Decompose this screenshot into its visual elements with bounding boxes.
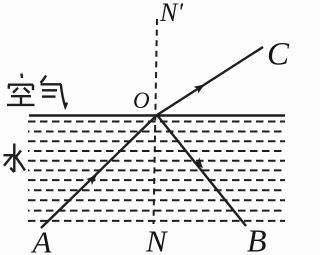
water dashed line row 1 (28, 121, 285, 123)
water dashed line row 8 (28, 189, 285, 191)
normal line N'N (vertical dashed) (154, 19, 158, 224)
air label 空气 (character 气) (41, 76, 68, 107)
water dashed line row 3 (28, 140, 285, 142)
arrowhead on reflected ray (193, 157, 206, 171)
water dashed line row 2 (28, 131, 285, 133)
water label 水 (4, 144, 26, 173)
water dashed line row 6 (28, 169, 285, 171)
svg-text:B: B (247, 223, 267, 255)
refracted ray O to C (157, 47, 263, 115)
water dashed line row 7 (28, 179, 285, 181)
water dashed line row 4 (28, 150, 285, 152)
water dashed line row 5 (28, 160, 285, 162)
svg-text:N': N' (159, 0, 183, 27)
water dashed line row 10 (28, 210, 285, 212)
air label 空气 (character 空) (7, 74, 35, 105)
water dashed line row 9 (28, 199, 285, 201)
arrowhead on incident ray (86, 172, 99, 185)
svg-text:C: C (267, 37, 290, 73)
reflected ray O to B (157, 115, 246, 226)
svg-text:O: O (133, 88, 150, 113)
incident ray A to O (41, 115, 157, 228)
svg-text:A: A (31, 225, 53, 255)
water surface line (29, 114, 285, 116)
svg-text:N: N (145, 224, 169, 255)
water dashed line row 11 (28, 220, 285, 222)
arrowhead on refracted ray (194, 81, 208, 94)
